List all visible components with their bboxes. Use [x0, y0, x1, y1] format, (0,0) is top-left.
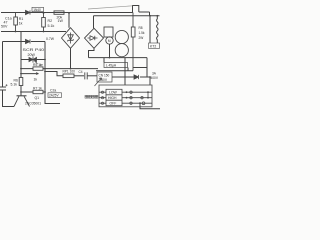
wiper arrowhead [36, 73, 39, 75]
armature circle bottom [115, 44, 128, 57]
bridge rectifier BR2 [85, 28, 104, 48]
wire motor top lead [109, 36, 111, 38]
svg-text:M: M [108, 39, 111, 43]
switch labels [108, 91, 118, 106]
svg-text:2W: 2W [139, 36, 144, 40]
svg-text:50V: 50V [1, 25, 8, 29]
svg-text:1k: 1k [19, 22, 23, 26]
svg-text:R7 1k: R7 1k [33, 87, 42, 91]
svg-text:LOW: LOW [109, 91, 118, 95]
inductor L1 boxed label [104, 63, 128, 68]
node R7 right [44, 91, 46, 93]
switch contacts right [130, 91, 145, 105]
svg-text:R5 1k: R5 1k [33, 63, 42, 67]
wire col44 down [44, 60, 46, 72]
wiper arrow CN [95, 78, 102, 86]
diode D3 inside [88, 36, 98, 40]
potentiometer RP1 [63, 74, 74, 78]
armature circle top [115, 30, 128, 43]
capacitor C1a label [1, 17, 12, 29]
node G [44, 68, 46, 70]
node M1 bottom [109, 57, 111, 59]
wire motor bottom lead [109, 44, 111, 57]
bridge rectifier BR1 [62, 28, 80, 49]
svg-text:CN 150: CN 150 [99, 74, 110, 78]
svg-text:R8: R8 [139, 26, 143, 30]
wire top rail [1, 11, 150, 14]
node C [15, 31, 17, 33]
svg-text:C4: C4 [79, 70, 83, 74]
node diamond1 y68 [70, 68, 72, 70]
wire branch y41 [3, 41, 46, 43]
transistor Q1 [14, 96, 30, 107]
thyristor SCR1 [29, 56, 38, 63]
wire right corner col [133, 58, 147, 77]
node F [20, 68, 22, 70]
svg-text:2SC05001: 2SC05001 [25, 102, 41, 106]
node D [68, 12, 70, 14]
resistor R8 [131, 13, 135, 71]
wire second rail [94, 15, 160, 17]
diode D2 [26, 39, 31, 43]
svg-text:1k: 1k [34, 77, 38, 81]
resistor R3 [54, 11, 64, 14]
resistor R2 [42, 13, 46, 32]
resistor R7 [33, 90, 43, 93]
wire switch box left drop [124, 58, 126, 85]
node J [149, 15, 151, 17]
svg-text:HIGH: HIGH [108, 96, 117, 100]
resistor R4 [19, 78, 23, 86]
svg-text:RP1 100: RP1 100 [63, 70, 76, 74]
svg-text:L 45µH: L 45µH [106, 64, 117, 68]
capacitor C1 [0, 84, 8, 90]
switch nodes [126, 91, 128, 93]
svg-text:1N40: 1N40 [33, 8, 41, 12]
svg-text:0.7W: 0.7W [46, 37, 55, 41]
wire d1 bottom lead [70, 48, 72, 68]
resistor R1 [14, 13, 18, 32]
wire left vertical [3, 42, 15, 107]
zener DZ inside [68, 33, 74, 44]
svg-text:2A25V: 2A25V [49, 94, 59, 98]
wire r7 row [21, 91, 45, 93]
node B [43, 31, 45, 33]
node E [44, 59, 46, 61]
wire scr loop [21, 32, 45, 60]
diode D1 [26, 10, 31, 14]
svg-text:Q1: Q1 [35, 96, 40, 100]
wire d2 bottom step [89, 48, 95, 57]
wire rp1 left step [45, 72, 63, 76]
wire wiper y73 [21, 73, 39, 75]
svg-text:400V: 400V [151, 76, 159, 80]
svg-text:1.5k: 1.5k [139, 31, 145, 35]
wire d2 top lead [93, 16, 95, 28]
node L [149, 76, 151, 78]
wire corner right [149, 12, 151, 16]
brush box [104, 27, 113, 37]
wire rp1 right [74, 75, 84, 77]
switch link bar [147, 92, 149, 98]
wire jump-over hump [133, 6, 139, 13]
svg-text:20W: 20W [28, 53, 36, 57]
wire diode row [112, 76, 150, 78]
svg-text:OFF: OFF [110, 102, 117, 106]
switch contacts left [101, 91, 103, 104]
label CN box [97, 72, 112, 82]
wire d1 top lead [68, 13, 70, 28]
node I [20, 73, 22, 75]
node K [156, 15, 158, 17]
wire box exit bottom [140, 103, 160, 109]
wire mid rail y57 [89, 57, 148, 59]
label 1N40 box [32, 7, 44, 12]
resistor R5 [33, 67, 43, 70]
wire faint slanted [88, 6, 133, 9]
svg-text:C2a: C2a [50, 88, 56, 92]
svg-text:KT2: KT2 [150, 44, 156, 48]
motor M1 [106, 37, 113, 44]
wire diode junction down [149, 77, 151, 85]
node A [43, 12, 45, 14]
label KT2 box [149, 43, 160, 48]
wire inductor leads [104, 58, 128, 71]
wire rail y31 [1, 31, 66, 33]
switch box S1 [99, 85, 152, 107]
capacitor C4 [85, 72, 87, 79]
svg-text:R2: R2 [48, 19, 53, 23]
wire y70.8 [96, 70, 133, 72]
svg-text:5.1k: 5.1k [11, 83, 18, 87]
label chinese switch [85, 95, 98, 98]
winding wavy [157, 16, 159, 43]
wire left col lower [20, 60, 22, 96]
svg-text:1W: 1W [58, 19, 64, 23]
wire winding left [149, 16, 151, 43]
diode D4 [134, 75, 139, 79]
svg-text:R1: R1 [19, 17, 24, 21]
svg-text:5.1k: 5.1k [48, 24, 55, 28]
wire y68 [21, 68, 98, 70]
node H [44, 71, 46, 73]
wire c2 column [45, 71, 60, 104]
wire cap to CN box [88, 75, 98, 77]
svg-text:SCR P40: SCR P40 [23, 48, 45, 52]
